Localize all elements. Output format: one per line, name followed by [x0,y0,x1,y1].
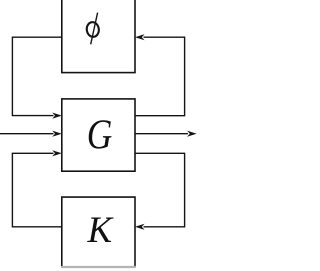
block K (controller, bottom) [62,197,135,267]
arrowhead external output [187,131,197,137]
wire G output 3: right and down into K right edge [135,153,185,227]
arrowhead into G input 2 [52,131,62,137]
wire G output 2: external output z with arrow [135,133,188,135]
arrowhead into K right edge [135,224,145,230]
wire external input w into G input 2 [0,133,54,135]
wire phi output: phi left edge, left and down to G input 1 [12,37,61,115]
label phi (drawn glyph: bowl) [86,21,100,37]
svg-text:G: G [87,112,113,159]
arrowhead into G input 1 [52,113,62,119]
arrowhead into G input 3 [52,150,62,156]
svg-text:K: K [87,209,115,250]
label G [87,112,113,159]
block K bottom edge (faded) [61,266,136,268]
arrowhead into phi right edge [135,34,145,40]
label phi (drawn glyph: diagonal stroke) [91,13,98,45]
wire K output: K left edge, left and up to G input 3 [12,153,61,227]
wire G output 1: right and up into phi right edge [135,37,185,116]
block phi (uncertainty block, top, clipped at image top) [62,0,135,73]
block G (plant, middle) [62,99,135,171]
